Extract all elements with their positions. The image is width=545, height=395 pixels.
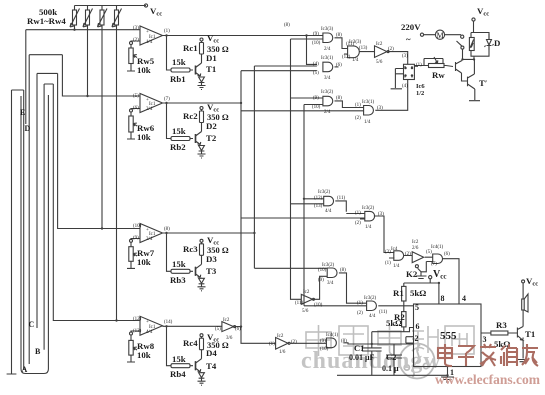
svg-text:Ic3(1): Ic3(1) [321, 56, 334, 61]
svg-text:R1: R1 [393, 288, 404, 298]
svg-text:(9): (9) [320, 339, 326, 344]
svg-text:1/4: 1/4 [393, 264, 400, 269]
svg-text:3/6: 3/6 [226, 336, 233, 341]
svg-text:(11): (11) [379, 310, 387, 315]
svg-text:(5): (5) [313, 71, 319, 76]
svg-text:(2): (2) [355, 116, 361, 121]
svg-text:R3: R3 [496, 320, 507, 330]
svg-text:(5): (5) [426, 250, 432, 255]
svg-text:T1: T1 [525, 329, 535, 339]
svg-text:(8): (8) [341, 339, 347, 344]
svg-text:15k: 15k [172, 354, 186, 364]
svg-text:5kΩ: 5kΩ [410, 288, 426, 298]
svg-text:5k: 5k [386, 318, 395, 328]
svg-text:(8): (8) [284, 23, 290, 28]
svg-text:3: 3 [483, 335, 487, 344]
svg-text:4/4: 4/4 [146, 330, 153, 335]
svg-text:(8): (8) [336, 96, 342, 101]
svg-text:(2): (2) [355, 221, 361, 226]
svg-text:10k: 10k [137, 257, 151, 267]
svg-text:(2): (2) [291, 340, 297, 345]
svg-text:(2): (2) [133, 38, 139, 43]
svg-text:(5): (5) [215, 327, 221, 332]
svg-text:(4): (4) [402, 84, 408, 89]
svg-text:4: 4 [462, 294, 466, 303]
svg-text:(12): (12) [314, 196, 323, 201]
svg-text:Ic2: Ic2 [412, 240, 419, 245]
svg-text:Rc2: Rc2 [183, 111, 198, 121]
svg-text:Rb3: Rb3 [170, 275, 186, 285]
svg-text:T2: T2 [206, 133, 217, 143]
svg-text:(13): (13) [359, 46, 368, 51]
svg-text:D3: D3 [206, 254, 217, 264]
svg-text:0.1 μ: 0.1 μ [382, 364, 399, 373]
svg-text:(11): (11) [337, 196, 345, 201]
svg-text:Ω: Ω [395, 318, 402, 328]
svg-text:15k: 15k [172, 57, 186, 67]
svg-text:D1: D1 [206, 53, 217, 63]
svg-text:Rw: Rw [432, 70, 445, 80]
svg-text:1/6: 1/6 [279, 350, 286, 355]
svg-text:(2): (2) [357, 311, 363, 316]
svg-text:(9): (9) [313, 96, 319, 101]
svg-text:4/4: 4/4 [369, 314, 376, 319]
svg-text:1/4: 1/4 [364, 120, 371, 125]
svg-text:T3: T3 [206, 266, 217, 276]
svg-text:15k: 15k [172, 259, 186, 269]
svg-text:D: D [494, 38, 500, 48]
svg-text:(8): (8) [164, 227, 170, 232]
svg-text:15k: 15k [172, 126, 186, 136]
svg-text:www.elecfans.com: www.elecfans.com [435, 372, 541, 387]
svg-text:1/2: 1/2 [416, 90, 424, 97]
svg-text:(3): (3) [402, 54, 408, 59]
svg-text:Rb4: Rb4 [170, 369, 186, 379]
svg-text:2: 2 [415, 334, 419, 343]
svg-text:(6): (6) [444, 252, 450, 257]
svg-text:Ic3(2): Ic3(2) [364, 296, 377, 301]
svg-text:T1: T1 [206, 64, 216, 74]
svg-text:3/4: 3/4 [324, 76, 331, 81]
svg-text:(5): (5) [133, 94, 139, 99]
svg-text:(4): (4) [313, 62, 319, 67]
svg-text:Rc1: Rc1 [183, 43, 198, 53]
svg-text:D2: D2 [206, 121, 217, 131]
svg-text:Ic2: Ic2 [376, 42, 383, 47]
svg-text:Rw1~Rw4: Rw1~Rw4 [27, 16, 66, 26]
svg-text:2/4: 2/4 [324, 110, 331, 115]
svg-text:(7): (7) [431, 262, 437, 267]
svg-text:Rb1: Rb1 [170, 74, 186, 84]
svg-text:Ic3(3): Ic3(3) [349, 40, 362, 45]
svg-text:(3): (3) [133, 26, 139, 31]
svg-text:(3): (3) [385, 250, 391, 255]
svg-text:(10): (10) [312, 105, 321, 110]
svg-text:4/4: 4/4 [325, 209, 332, 214]
svg-text:(12): (12) [133, 317, 142, 322]
svg-text:555: 555 [440, 330, 457, 342]
svg-text:10k: 10k [137, 132, 151, 142]
svg-text:T4: T4 [206, 361, 217, 371]
svg-text:Ic3(2): Ic3(2) [318, 190, 331, 195]
svg-text:(12): (12) [342, 55, 351, 60]
svg-text:2/6: 2/6 [412, 246, 419, 251]
svg-text:10k: 10k [137, 65, 151, 75]
svg-text:3/4: 3/4 [327, 281, 334, 286]
svg-text:D4: D4 [206, 348, 217, 358]
svg-text:(3): (3) [378, 212, 384, 217]
svg-text:(9): (9) [133, 236, 139, 241]
svg-text:(10): (10) [133, 224, 142, 229]
svg-text:10k: 10k [137, 350, 151, 360]
svg-text:(1): (1) [385, 261, 391, 266]
svg-text:Ic2: Ic2 [223, 318, 230, 323]
svg-text:C1: C1 [354, 343, 364, 353]
svg-text:(14): (14) [164, 320, 173, 325]
svg-text:C: C [29, 320, 35, 329]
svg-text:C2: C2 [386, 352, 396, 362]
svg-text:Rb2: Rb2 [170, 142, 186, 152]
svg-text:Ic4(1): Ic4(1) [431, 245, 444, 250]
svg-text:0.01 μF: 0.01 μF [349, 353, 375, 362]
svg-text:1/4: 1/4 [146, 40, 153, 45]
svg-text:Ic2: Ic2 [277, 334, 284, 339]
svg-text:Ic4: Ic4 [391, 247, 398, 252]
svg-text:1/4: 1/4 [352, 58, 359, 63]
svg-text:Ic6: Ic6 [416, 83, 425, 90]
svg-text:(3): (3) [377, 106, 383, 111]
svg-text:(10): (10) [320, 347, 329, 352]
svg-text:(6): (6) [235, 327, 241, 332]
svg-text:(1): (1) [164, 29, 170, 34]
svg-text:T′: T′ [479, 78, 487, 88]
svg-text:(1): (1) [416, 63, 422, 68]
svg-text:A: A [22, 365, 28, 374]
svg-text:Ic3(2): Ic3(2) [321, 90, 334, 95]
svg-text:(1): (1) [269, 342, 275, 347]
svg-text:Ic2: Ic2 [303, 290, 310, 295]
svg-text:Rc4: Rc4 [183, 338, 198, 348]
svg-text:6: 6 [416, 322, 420, 331]
svg-text:5: 5 [415, 303, 419, 312]
svg-text:5/6: 5/6 [376, 60, 383, 65]
svg-text:(1): (1) [357, 301, 363, 306]
svg-text:(10): (10) [312, 41, 321, 46]
svg-text:D: D [25, 124, 31, 133]
svg-text:3/4: 3/4 [146, 237, 153, 242]
svg-text:(2): (2) [405, 252, 411, 257]
svg-text:(9): (9) [313, 32, 319, 37]
svg-text:E: E [20, 108, 25, 117]
svg-text:Ic3(2): Ic3(2) [362, 206, 375, 211]
svg-text:5/6: 5/6 [302, 309, 309, 314]
svg-text:2/4: 2/4 [146, 107, 153, 112]
svg-text:(9): (9) [318, 278, 324, 283]
svg-text:(1): (1) [355, 103, 361, 108]
svg-text:(11): (11) [295, 301, 303, 306]
svg-text:Ic3(1): Ic3(1) [362, 100, 375, 105]
svg-text:(1): (1) [355, 211, 361, 216]
svg-text:~: ~ [406, 34, 411, 44]
svg-text:1/4: 1/4 [365, 225, 372, 230]
svg-text:8: 8 [441, 294, 445, 303]
svg-text:(8): (8) [340, 268, 346, 273]
svg-text:(6): (6) [336, 63, 342, 68]
svg-text:(8): (8) [336, 33, 342, 38]
svg-text:Ic4(1): Ic4(1) [326, 333, 339, 338]
svg-text:K2: K2 [406, 269, 418, 279]
svg-text:M: M [437, 31, 444, 40]
svg-text:(7): (7) [164, 97, 170, 102]
svg-text:(10): (10) [318, 268, 327, 273]
svg-text:2/4: 2/4 [324, 47, 331, 52]
svg-text:Ic3(3): Ic3(3) [321, 27, 334, 32]
svg-text:(6): (6) [133, 106, 139, 111]
svg-text:(13): (13) [133, 329, 142, 334]
svg-text:(2): (2) [388, 47, 394, 52]
svg-text:(10): (10) [314, 303, 323, 308]
svg-text:Rc3: Rc3 [183, 244, 198, 254]
svg-text:220V: 220V [401, 22, 421, 32]
svg-text:(13): (13) [314, 204, 323, 209]
svg-text:B: B [35, 347, 41, 356]
